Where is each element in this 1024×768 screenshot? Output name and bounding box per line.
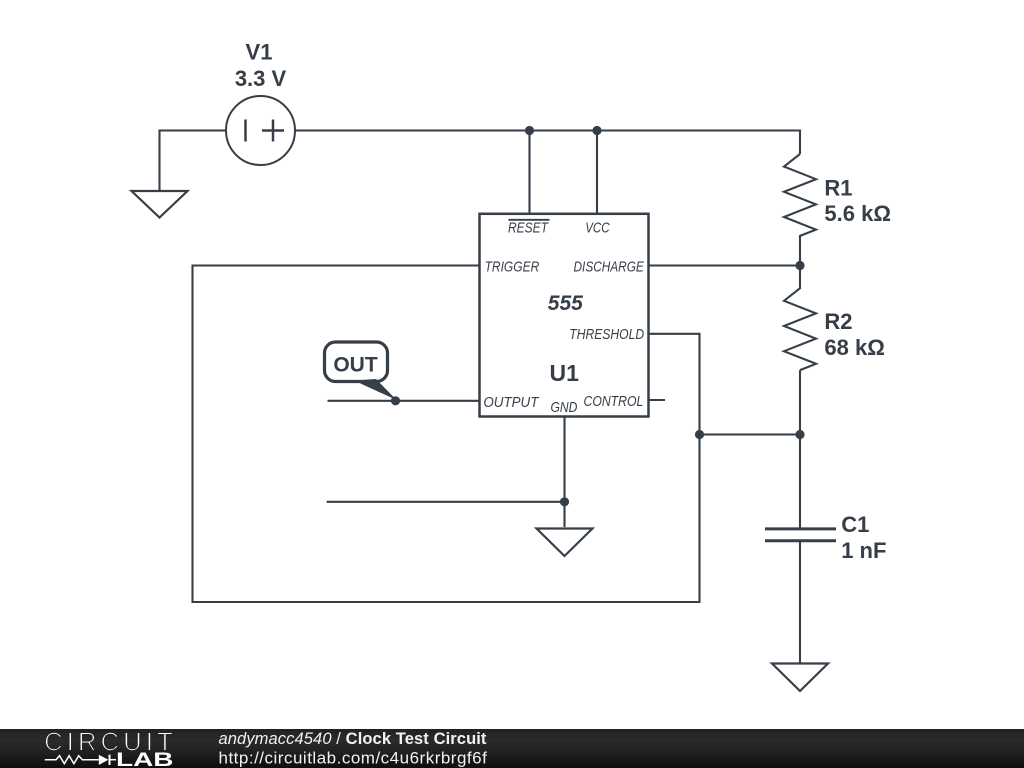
svg-text:3.3 V: 3.3 V: [235, 66, 287, 91]
svg-text:THRESHOLD: THRESHOLD: [569, 326, 644, 343]
wire: CONTROL pin stub: [649, 399, 666, 401]
svg-text:DISCHARGE: DISCHARGE: [574, 258, 645, 275]
wire: V1 negative lead to ground: [160, 131, 227, 192]
svg-text:R1: R1: [824, 176, 852, 201]
node: junction dot R2/C1: [795, 430, 804, 439]
node: junction dot top rail / RESET: [525, 126, 534, 135]
node: junction dot R1/R2/DISCHARGE: [795, 261, 804, 270]
CircuitLab logo CIRCUIT text: [0, 0, 1, 1]
svg-text:CONTROL: CONTROL: [584, 393, 644, 410]
capacitor C1 plates: [765, 529, 836, 541]
svg-text:555: 555: [548, 292, 583, 315]
CircuitLab logo resistor+diode glyph: [45, 756, 116, 764]
svg-text:1 nF: 1 nF: [841, 538, 886, 563]
voltage source V1 symbol: [226, 96, 295, 165]
wire: stub on GND net: [327, 501, 565, 503]
wire: VCC pin to top rail: [596, 131, 598, 215]
svg-text:C1: C1: [841, 512, 869, 537]
wire: TRIGGER loop left-bottom-right up to THRESHOLD: [193, 266, 700, 603]
node: junction dot OUT flag: [391, 396, 400, 405]
IC U1 555 box: [480, 214, 649, 417]
ground (below V1): [132, 191, 188, 218]
wire: DISCHARGE pin to R1/R2 junction: [649, 264, 801, 266]
node: junction dot GND net: [560, 497, 569, 506]
ground (555 GND): [537, 529, 593, 557]
wire: OUTPUT pin stub: [328, 400, 480, 402]
svg-text:andymacc4540 / Clock Test Circ: andymacc4540 / Clock Test Circuit: [219, 730, 487, 748]
svg-text:R2: R2: [824, 309, 852, 334]
svg-text:OUT: OUT: [333, 354, 378, 377]
node: junction dot top rail / VCC: [592, 126, 601, 135]
ground (below C1): [772, 664, 828, 692]
flag OUT callout box: [325, 342, 397, 400]
wire: R2 bottom lead to C1 top plate: [799, 370, 801, 527]
svg-text:LAB: LAB: [116, 750, 174, 768]
wire: GND pin down to ground: [563, 417, 565, 528]
resistor R2 body (zigzag): [784, 266, 816, 371]
wire: top rail from V1 to R1 top corner: [295, 131, 800, 155]
svg-text:U1: U1: [550, 360, 580, 386]
resistor R1 body (zigzag): [784, 154, 816, 266]
svg-text:5.6 kΩ: 5.6 kΩ: [824, 201, 891, 226]
wire: C1 bottom plate to ground: [799, 542, 801, 663]
svg-text:VCC: VCC: [585, 219, 610, 236]
svg-text:GND: GND: [551, 399, 578, 416]
svg-text:68 kΩ: 68 kΩ: [824, 335, 884, 360]
svg-text:TRIGGER: TRIGGER: [485, 258, 540, 275]
wire: RESET pin to top rail: [528, 131, 530, 215]
node: junction dot THRESHOLD net left: [695, 430, 704, 439]
wire: R2 bottom junction to THRESHOLD vertical: [700, 433, 801, 435]
svg-text:V1: V1: [246, 40, 273, 65]
svg-text:http://circuitlab.com/c4u6rkrb: http://circuitlab.com/c4u6rkrbrgf6f: [219, 749, 488, 768]
svg-text:OUTPUT: OUTPUT: [483, 394, 540, 411]
svg-text:RESET: RESET: [508, 219, 549, 236]
